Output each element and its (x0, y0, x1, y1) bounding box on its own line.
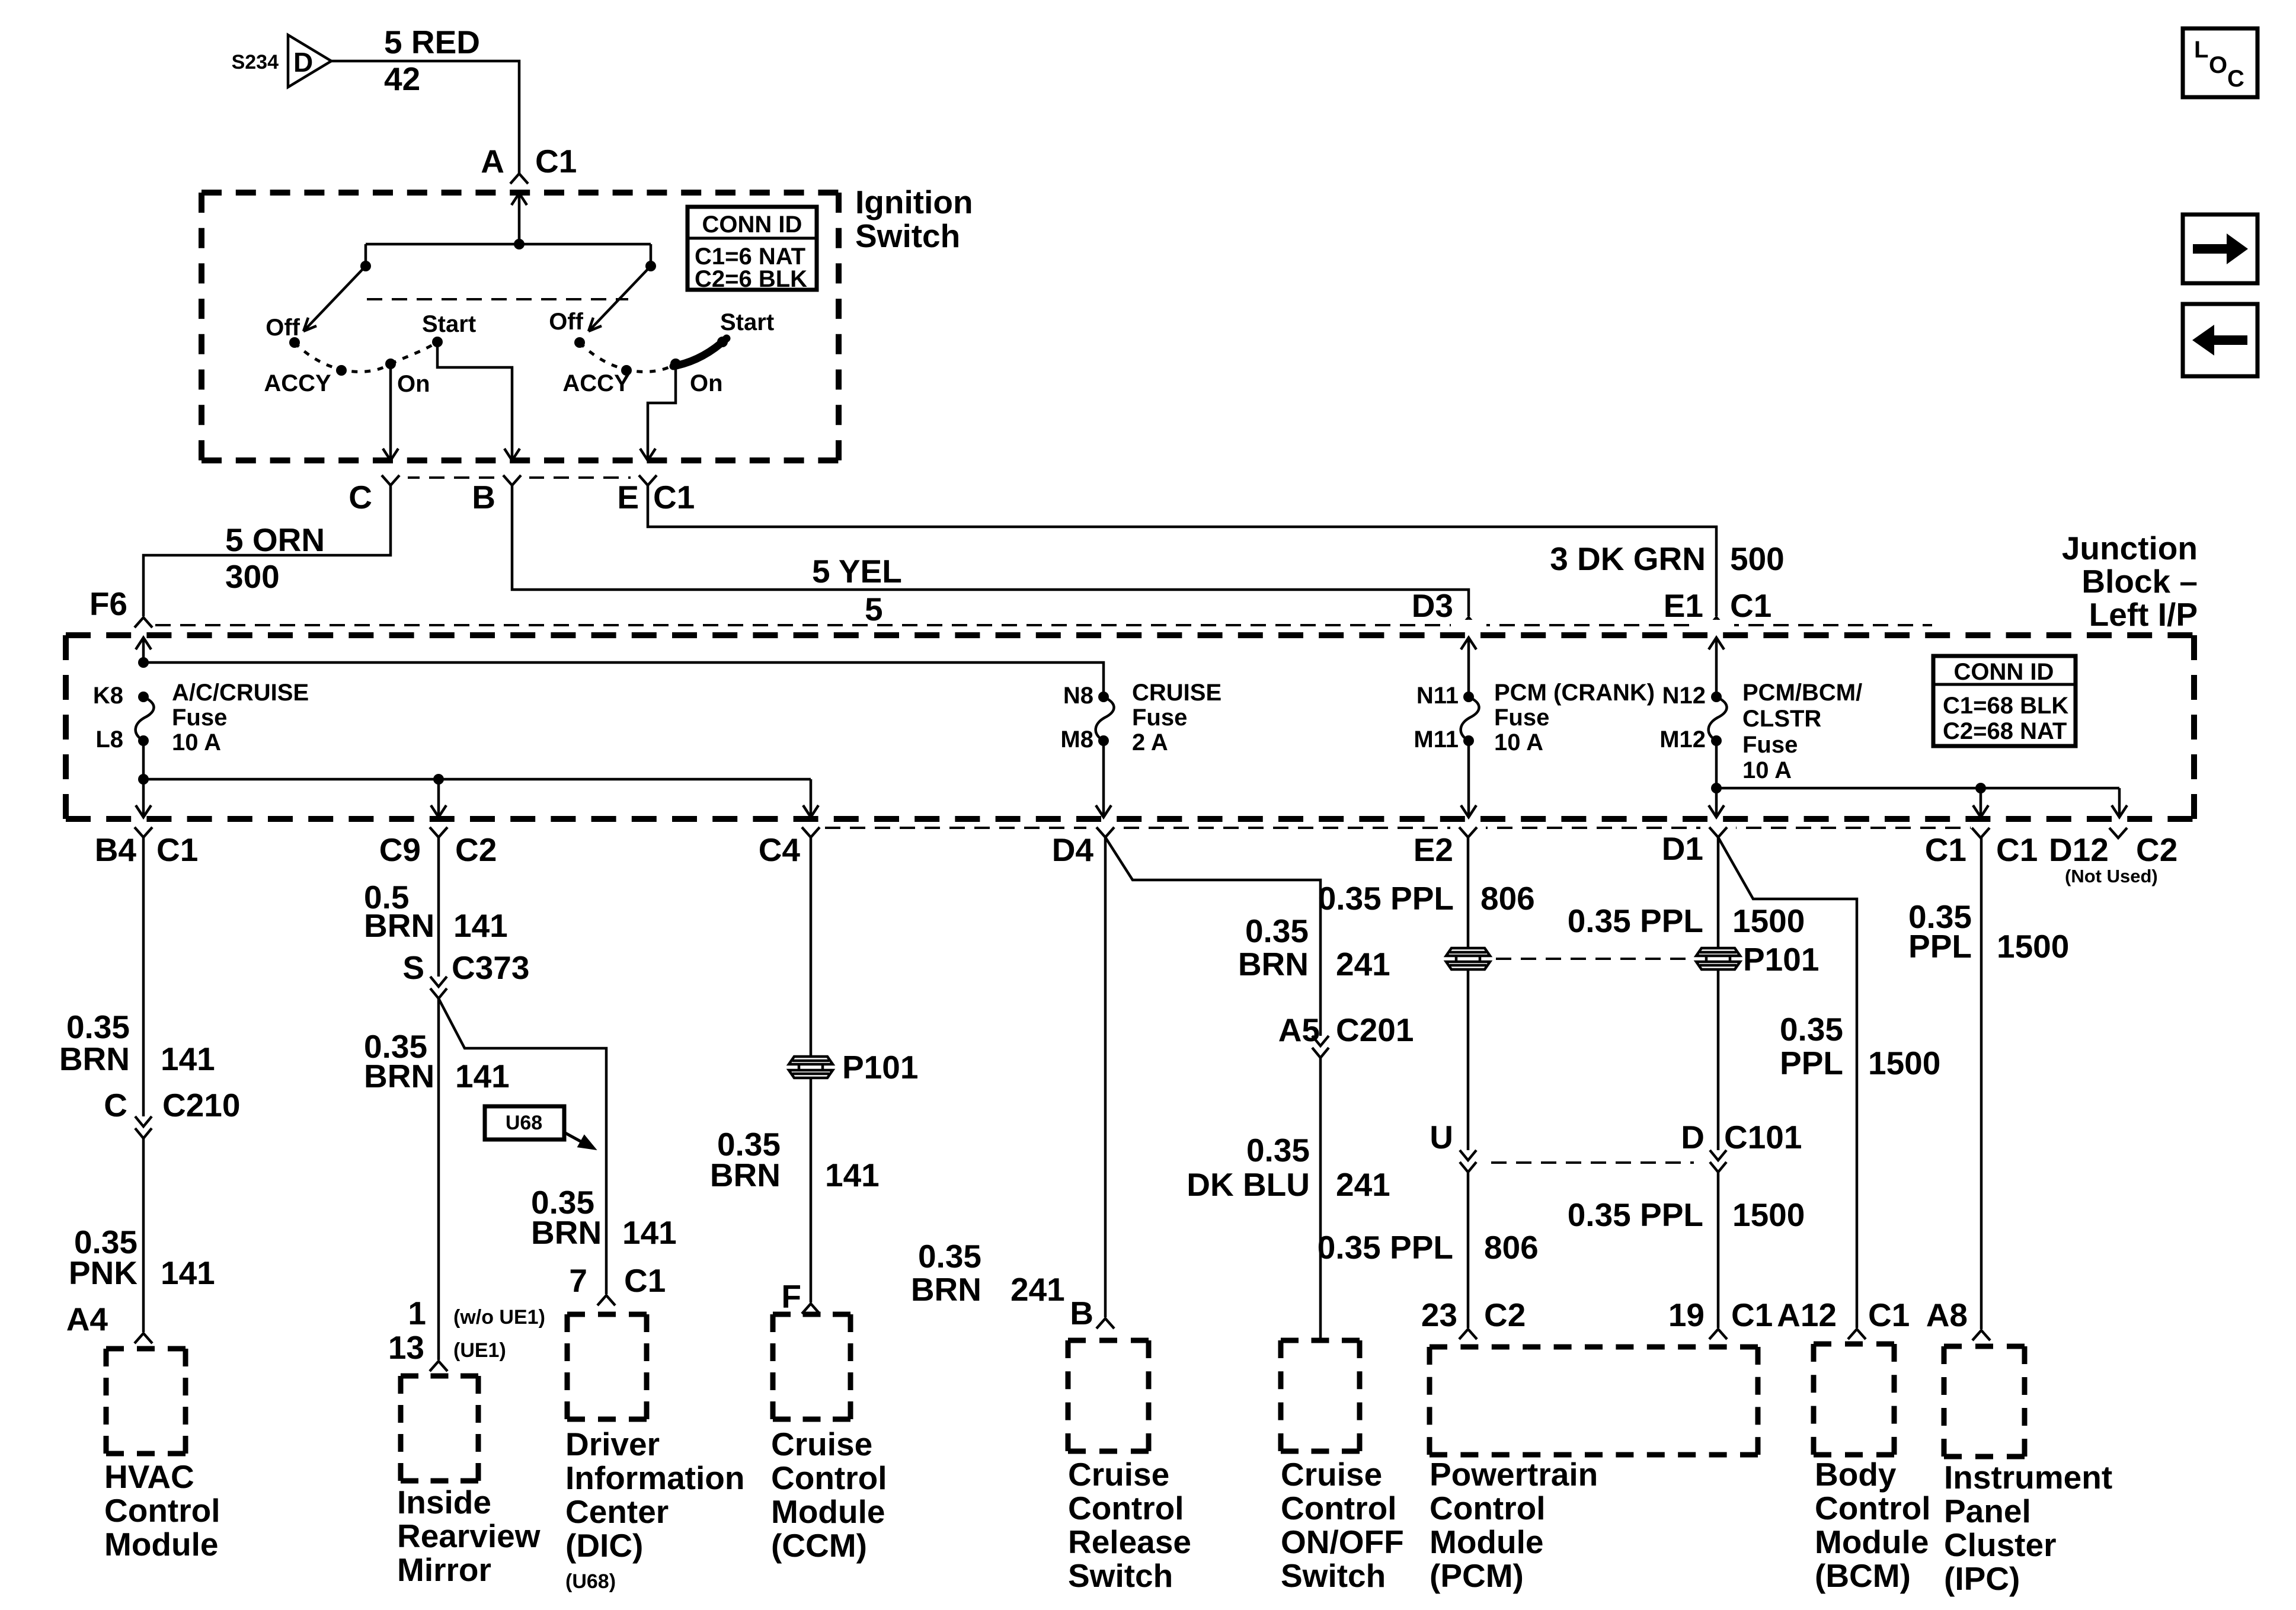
svg-text:10 A: 10 A (1742, 757, 1792, 783)
svg-text:Control: Control (1068, 1490, 1184, 1526)
svg-text:300: 300 (225, 558, 280, 595)
svg-text:Switch: Switch (1068, 1557, 1173, 1594)
svg-text:Mirror: Mirror (397, 1551, 491, 1588)
svg-text:U68: U68 (506, 1112, 542, 1134)
svg-text:Control: Control (1430, 1490, 1546, 1526)
svg-text:D: D (293, 47, 313, 78)
svg-text:ACCY: ACCY (562, 370, 630, 396)
svg-text:13: 13 (388, 1329, 424, 1366)
svg-text:C1: C1 (1868, 1297, 1910, 1333)
svg-text:C: C (2227, 66, 2244, 92)
svg-text:0.35: 0.35 (66, 1009, 130, 1045)
svg-text:Off: Off (549, 309, 583, 335)
svg-text:141: 141 (622, 1214, 677, 1251)
svg-text:A12: A12 (1777, 1297, 1837, 1333)
svg-text:Release: Release (1068, 1523, 1191, 1560)
svg-text:(IPC): (IPC) (1944, 1560, 2020, 1597)
svg-text:C1: C1 (535, 143, 577, 180)
svg-text:Off: Off (266, 315, 300, 341)
svg-text:Module: Module (104, 1526, 218, 1563)
svg-text:Switch: Switch (855, 217, 960, 254)
svg-text:S234: S234 (232, 51, 279, 73)
svg-text:E: E (617, 479, 639, 516)
svg-text:Body: Body (1815, 1456, 1897, 1493)
svg-text:N12: N12 (1662, 683, 1706, 709)
svg-text:(PCM): (PCM) (1430, 1557, 1524, 1594)
svg-text:D12: D12 (2049, 831, 2109, 868)
svg-text:B4: B4 (95, 831, 137, 868)
svg-text:(UE1): (UE1) (453, 1339, 506, 1362)
svg-text:241: 241 (1336, 1166, 1390, 1203)
svg-text:Module: Module (771, 1493, 885, 1530)
svg-text:BRN: BRN (364, 1058, 434, 1094)
svg-text:Switch: Switch (1281, 1557, 1386, 1594)
svg-text:141: 141 (825, 1157, 880, 1193)
svg-text:Cruise: Cruise (771, 1426, 872, 1462)
svg-text:Ignition: Ignition (855, 184, 973, 220)
svg-text:23: 23 (1421, 1297, 1457, 1333)
svg-text:1500: 1500 (1732, 902, 1805, 939)
svg-text:Information: Information (565, 1459, 744, 1496)
svg-text:42: 42 (384, 60, 420, 97)
svg-text:Control: Control (771, 1459, 887, 1496)
svg-text:(U68): (U68) (565, 1570, 616, 1593)
svg-text:CONN ID: CONN ID (1954, 659, 2054, 685)
svg-text:C1: C1 (1996, 831, 2038, 868)
svg-text:Control: Control (1815, 1490, 1931, 1526)
svg-text:C201: C201 (1336, 1012, 1414, 1048)
svg-text:500: 500 (1730, 540, 1785, 577)
svg-text:CLSTR: CLSTR (1742, 706, 1821, 732)
svg-text:Rearview: Rearview (397, 1518, 541, 1554)
svg-text:F6: F6 (89, 585, 127, 622)
svg-text:CONN ID: CONN ID (702, 212, 802, 238)
svg-text:1500: 1500 (1732, 1196, 1805, 1233)
svg-text:C1: C1 (653, 479, 695, 516)
svg-text:F: F (781, 1278, 801, 1315)
svg-text:BRN: BRN (710, 1157, 781, 1193)
svg-text:Left I/P: Left I/P (2089, 596, 2198, 633)
svg-text:C373: C373 (452, 949, 529, 986)
svg-text:5 ORN: 5 ORN (225, 521, 325, 558)
svg-text:CRUISE: CRUISE (1132, 680, 1221, 706)
svg-text:C1: C1 (624, 1262, 666, 1299)
svg-text:C1: C1 (1925, 831, 1966, 868)
svg-text:C210: C210 (162, 1087, 240, 1124)
svg-text:19: 19 (1668, 1297, 1705, 1333)
svg-text:3 DK GRN: 3 DK GRN (1550, 540, 1706, 577)
svg-text:0.35 PPL: 0.35 PPL (1568, 902, 1703, 939)
svg-text:A4: A4 (66, 1301, 108, 1337)
svg-text:5 YEL: 5 YEL (812, 553, 902, 590)
svg-text:HVAC: HVAC (104, 1458, 194, 1495)
svg-text:M11: M11 (1414, 726, 1459, 753)
svg-text:Block –: Block – (2081, 563, 2198, 600)
svg-text:E2: E2 (1414, 831, 1453, 868)
svg-text:7: 7 (569, 1262, 587, 1299)
svg-text:Module: Module (1430, 1523, 1543, 1560)
svg-text:U: U (1430, 1119, 1453, 1156)
svg-text:(DIC): (DIC) (565, 1527, 643, 1564)
svg-text:Cruise: Cruise (1281, 1456, 1382, 1493)
svg-text:C2: C2 (2136, 831, 2177, 868)
svg-text:Fuse: Fuse (1742, 732, 1798, 758)
svg-text:P101: P101 (842, 1049, 918, 1086)
svg-text:5 RED: 5 RED (384, 24, 480, 60)
svg-text:BRN: BRN (531, 1214, 602, 1251)
svg-text:1: 1 (408, 1295, 426, 1331)
svg-text:0.35 PPL: 0.35 PPL (1568, 1196, 1703, 1233)
svg-text:Cluster: Cluster (1944, 1526, 2057, 1563)
svg-text:B: B (1070, 1295, 1093, 1331)
svg-text:PCM/BCM/: PCM/BCM/ (1742, 680, 1862, 706)
svg-text:B: B (472, 479, 495, 516)
svg-text:BRN: BRN (364, 907, 434, 944)
svg-text:On: On (397, 371, 430, 397)
svg-text:PPL: PPL (1780, 1045, 1843, 1081)
svg-text:O: O (2209, 52, 2227, 78)
svg-text:0.35: 0.35 (1246, 1132, 1310, 1169)
svg-text:P101: P101 (1743, 941, 1819, 978)
svg-text:0.35 PPL: 0.35 PPL (1318, 880, 1454, 917)
svg-text:141: 141 (453, 907, 508, 944)
svg-text:Control: Control (104, 1492, 220, 1529)
svg-text:D: D (1681, 1119, 1705, 1156)
svg-text:5: 5 (865, 591, 883, 628)
svg-text:Fuse: Fuse (172, 705, 227, 731)
svg-text:0.35: 0.35 (1780, 1011, 1843, 1048)
svg-text:0.35 PPL: 0.35 PPL (1318, 1229, 1453, 1266)
svg-text:Control: Control (1281, 1490, 1397, 1526)
svg-text:PCM (CRANK): PCM (CRANK) (1494, 680, 1655, 706)
svg-text:D1: D1 (1662, 830, 1703, 867)
svg-text:241: 241 (1336, 946, 1390, 982)
svg-text:C1: C1 (1730, 587, 1771, 624)
svg-text:D4: D4 (1052, 831, 1094, 868)
svg-text:C101: C101 (1724, 1119, 1802, 1156)
svg-text:Powertrain: Powertrain (1430, 1456, 1598, 1493)
svg-text:1500: 1500 (1997, 928, 2069, 965)
svg-text:241: 241 (1011, 1271, 1065, 1308)
svg-text:(BCM): (BCM) (1815, 1557, 1911, 1594)
svg-text:C2=6 BLK: C2=6 BLK (695, 266, 807, 292)
svg-text:C1: C1 (156, 831, 198, 868)
svg-text:PNK: PNK (69, 1254, 137, 1291)
svg-text:BRN: BRN (59, 1041, 130, 1077)
svg-text:806: 806 (1484, 1229, 1539, 1266)
svg-text:C4: C4 (759, 831, 801, 868)
svg-text:(w/o UE1): (w/o UE1) (453, 1306, 545, 1329)
svg-text:0.35: 0.35 (1245, 913, 1309, 949)
svg-text:C2=68 NAT: C2=68 NAT (1943, 718, 2067, 744)
svg-text:10 A: 10 A (1494, 729, 1543, 756)
svg-text:Cruise: Cruise (1068, 1456, 1169, 1493)
svg-text:BRN: BRN (1238, 946, 1309, 982)
svg-text:ACCY: ACCY (264, 370, 331, 396)
svg-text:141: 141 (161, 1041, 215, 1077)
svg-text:A/C/CRUISE: A/C/CRUISE (172, 680, 309, 706)
svg-text:Center: Center (565, 1493, 669, 1530)
svg-text:(CCM): (CCM) (771, 1527, 867, 1564)
svg-text:Fuse: Fuse (1494, 705, 1549, 731)
svg-text:A8: A8 (1926, 1297, 1968, 1333)
svg-text:(Not Used): (Not Used) (2065, 866, 2158, 886)
svg-text:Fuse: Fuse (1132, 705, 1187, 731)
svg-text:DK BLU: DK BLU (1187, 1166, 1310, 1203)
svg-text:C2: C2 (455, 831, 497, 868)
svg-text:141: 141 (161, 1254, 215, 1291)
svg-text:On: On (690, 370, 723, 396)
svg-text:Inside: Inside (397, 1484, 491, 1521)
svg-text:M8: M8 (1060, 726, 1093, 753)
svg-text:1500: 1500 (1868, 1045, 1940, 1081)
svg-text:141: 141 (455, 1058, 510, 1094)
svg-text:ON/OFF: ON/OFF (1281, 1523, 1404, 1560)
svg-text:K8: K8 (93, 683, 123, 709)
svg-text:C1: C1 (1731, 1297, 1773, 1333)
svg-text:2 A: 2 A (1132, 729, 1168, 756)
svg-text:N11: N11 (1416, 683, 1459, 709)
svg-text:Panel: Panel (1944, 1493, 2031, 1529)
svg-text:Junction: Junction (2062, 530, 2198, 566)
svg-text:Driver: Driver (565, 1426, 660, 1462)
svg-text:S: S (402, 949, 424, 986)
svg-text:L8: L8 (95, 726, 123, 753)
svg-text:C: C (104, 1087, 127, 1124)
svg-text:C1=68 BLK: C1=68 BLK (1943, 693, 2068, 719)
svg-text:E1: E1 (1664, 587, 1703, 624)
svg-text:806: 806 (1480, 880, 1535, 917)
svg-text:A: A (481, 143, 504, 180)
svg-text:L: L (2194, 37, 2208, 63)
svg-text:10 A: 10 A (172, 729, 221, 756)
svg-text:C: C (348, 479, 372, 516)
svg-text:0.35: 0.35 (918, 1238, 981, 1275)
svg-text:Start: Start (720, 309, 774, 335)
svg-text:Start: Start (422, 311, 476, 337)
svg-text:A5: A5 (1278, 1012, 1320, 1048)
svg-text:C2: C2 (1484, 1297, 1526, 1333)
svg-text:M12: M12 (1659, 726, 1706, 753)
svg-text:PPL: PPL (1908, 928, 1972, 965)
svg-text:BRN: BRN (911, 1271, 981, 1308)
svg-text:Instrument: Instrument (1944, 1459, 2112, 1496)
svg-text:N8: N8 (1063, 683, 1093, 709)
svg-text:D3: D3 (1412, 587, 1453, 624)
svg-text:Module: Module (1815, 1523, 1929, 1560)
